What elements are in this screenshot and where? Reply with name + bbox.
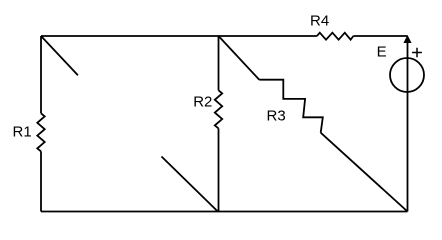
wire middle lower [218,128,220,211]
wire diagonal upper (top-middle node to R3) [219,36,260,80]
svg-text:R1: R1 [13,124,32,141]
source E arrowhead [403,35,411,43]
polarity + [412,48,422,58]
wire diagonal stub from top-left corner [41,36,78,75]
resistor R4 [317,33,354,40]
wire right (source branch) [407,41,409,212]
wire diagonal stub to bottom-middle node [162,157,218,212]
source E circle [390,58,424,92]
svg-text:R2: R2 [193,93,212,110]
svg-text:R3: R3 [267,107,286,124]
svg-text:E: E [377,44,387,61]
wire middle upper [218,36,220,90]
wire left lower [40,151,42,211]
wire left upper [40,36,42,113]
wire top-left segment [41,35,317,37]
wire diagonal lower (R3 to bottom-right corner) [321,133,408,212]
resistor R2 [215,90,222,128]
wire bottom [41,211,408,213]
wire top-right segment [353,35,407,37]
resistor R3 [259,80,323,133]
svg-text:R4: R4 [310,12,329,29]
resistor R1 [37,113,44,151]
